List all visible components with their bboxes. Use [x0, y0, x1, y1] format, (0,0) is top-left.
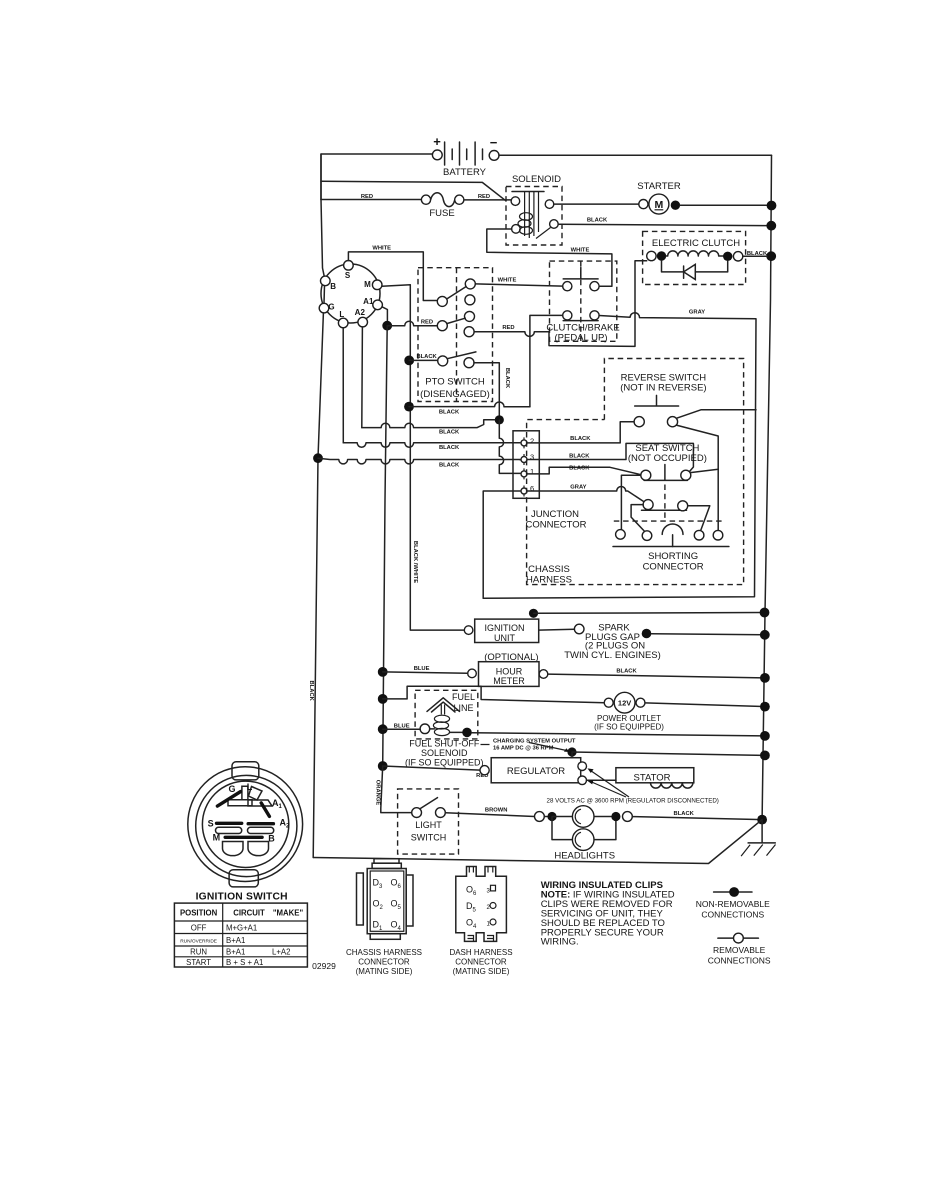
left rail down to ignition switch B [321, 154, 324, 276]
svg-text:CIRCUIT: CIRCUIT [233, 909, 265, 918]
svg-text:B: B [330, 282, 336, 291]
svg-text:PTO SWITCH: PTO SWITCH [425, 377, 485, 388]
svg-text:(MATING SIDE): (MATING SIDE) [356, 967, 413, 976]
wire BLACK L to junction pin2 [343, 443, 520, 447]
wire ORANGE a1 rail to light switch [381, 766, 412, 813]
svg-text:L: L [339, 310, 344, 319]
svg-text:M+G+A1: M+G+A1 [226, 924, 257, 933]
svg-text:CONNECTIONS: CONNECTIONS [708, 956, 771, 966]
ignition switch (mating view) [188, 762, 303, 887]
svg-text:CONNECTOR: CONNECTOR [643, 561, 704, 572]
svg-text:CONNECTIONS: CONNECTIONS [701, 910, 764, 920]
svg-text:BLUE: BLUE [414, 666, 430, 672]
wire WHITE pto to clutch/brake [475, 284, 562, 286]
svg-text:HEADLIGHTS: HEADLIGHTS [554, 851, 615, 862]
dashed harness line through shorting connector [614, 520, 725, 522]
wire RED fuse feed [321, 199, 422, 201]
svg-text:BLUE: BLUE [394, 723, 410, 729]
wire seat LR to shorting c4 [688, 506, 710, 531]
wire BLACK pto LR down to junction pin1 [474, 363, 499, 415]
electric clutch L1 [643, 231, 746, 284]
svg-text:DASH HARNESS: DASH HARNESS [449, 948, 512, 957]
stator [587, 768, 694, 788]
svg-text:FUSE: FUSE [429, 208, 454, 219]
wire B-G rail segment [313, 286, 324, 858]
legend removable connection [708, 933, 771, 965]
svg-text:RUN/OVERRIDE: RUN/OVERRIDE [180, 939, 217, 945]
svg-text:WIRING.: WIRING. [541, 937, 579, 948]
svg-text:BLACK /WHITE: BLACK /WHITE [412, 541, 418, 583]
svg-text:CHASSIS HARNESS: CHASSIS HARNESS [346, 948, 422, 957]
svg-text:2: 2 [530, 437, 534, 446]
svg-text:"MAKE": "MAKE" [273, 909, 304, 918]
svg-text:HOUR: HOUR [496, 666, 523, 676]
legend non-removable connection [696, 887, 770, 919]
node A1/regulator [378, 761, 388, 771]
right rail (battery negative bus) [762, 155, 771, 819]
wire BLACK headlights to rail [632, 817, 757, 820]
svg-text:WHITE: WHITE [498, 278, 517, 284]
svg-text:RED: RED [502, 325, 514, 331]
wire BLUE to fuel solenoid [383, 728, 420, 730]
node A1/hour-meter [378, 667, 388, 677]
wire seat UL to shorting c1 [621, 475, 640, 529]
wire RED pto to electric clutch [474, 261, 647, 347]
wire W2 BLACK a2 to pto-black node [362, 420, 495, 428]
svg-text:(PEDAL UP): (PEDAL UP) [555, 333, 608, 344]
wire to 12V power outlet [383, 686, 605, 702]
svg-text:BLACK: BLACK [439, 445, 460, 451]
svg-text:HARNESS: HARNESS [526, 575, 572, 586]
svg-text:−: − [490, 135, 498, 150]
svg-text:STARTER: STARTER [637, 181, 681, 192]
svg-text:WHITE: WHITE [372, 245, 391, 251]
svg-text:BLACK: BLACK [416, 354, 437, 360]
svg-text:METER: METER [493, 676, 525, 686]
svg-text:ELECTRIC CLUTCH: ELECTRIC CLUTCH [652, 238, 740, 249]
wire BLACK pin3 to seat switch UR [527, 443, 693, 471]
node A1/power-outlet [378, 694, 388, 704]
wire A1 to red node [382, 307, 387, 321]
svg-text:SHORTING: SHORTING [648, 551, 698, 562]
svg-text:(DISENGAGED): (DISENGAGED) [420, 389, 490, 400]
svg-text:REGULATOR: REGULATOR [507, 766, 565, 777]
svg-text:A1: A1 [363, 297, 374, 306]
clutch/brake switch S2 [546, 261, 619, 343]
wire clutch/brake LL down to ignition-unit bus [530, 315, 563, 406]
ignition switch table [174, 903, 307, 967]
svg-text:G: G [328, 303, 334, 312]
svg-text:(MATING SIDE): (MATING SIDE) [453, 967, 510, 976]
svg-text:M: M [213, 832, 221, 842]
node B rail / pin3 [313, 453, 323, 463]
node solenoid-black/rail [766, 221, 776, 231]
svg-text:GRAY: GRAY [689, 310, 705, 316]
wire battery+ diagonal to solenoid [321, 181, 506, 201]
wire starter to rail [680, 204, 772, 206]
svg-text:FUEL: FUEL [452, 692, 475, 702]
wire BLACK solenoid to rail [558, 224, 767, 225]
wire ignition bus to rail [534, 612, 765, 615]
svg-text:BROWN: BROWN [485, 807, 508, 813]
wire GRAY pin6 to seat switch LL [527, 487, 644, 502]
wire BROWN light switch to headlights [445, 813, 534, 817]
diode CR1 [662, 261, 728, 279]
svg-text:IGNITION: IGNITION [485, 623, 525, 633]
svg-text:(IF SO EQUIPPED): (IF SO EQUIPPED) [594, 723, 664, 732]
battery feed wire (left) [321, 154, 432, 200]
wire fuel solenoid to rail [472, 733, 765, 736]
svg-text:12V: 12V [618, 699, 631, 708]
svg-text:ORANGE: ORANGE [375, 780, 381, 806]
wire WHITE S to pto [348, 252, 437, 301]
wire A2 rail down [361, 327, 364, 428]
wire GRAY clutch/brake to seat harness return [483, 313, 756, 598]
wire M to ignition unit bus [382, 285, 464, 630]
svg-text:NON-REMOVABLE: NON-REMOVABLE [696, 899, 770, 909]
svg-text:BLACK: BLACK [308, 681, 314, 702]
junction connector J1 [513, 431, 539, 499]
wire BLACK B to junction pin3 [318, 458, 520, 464]
fuse F1 [421, 193, 464, 219]
svg-text:28 VOLTS AC @ 3600 RPM (REGULA: 28 VOLTS AC @ 3600 RPM (REGULATOR DISCON… [547, 798, 719, 805]
svg-text:STATOR: STATOR [634, 772, 671, 783]
svg-text:SWITCH: SWITCH [411, 833, 447, 843]
node starter/rail [767, 201, 777, 211]
svg-text:BLACK: BLACK [439, 462, 460, 468]
svg-text:GRAY: GRAY [570, 485, 586, 491]
node pto-black left [404, 356, 414, 366]
svg-text:BLACK: BLACK [439, 409, 460, 415]
wire BLACK pin1 to seat switch UL [527, 467, 641, 474]
node ignition unit / rail bus [529, 609, 538, 618]
svg-text:L: L [247, 782, 253, 792]
12V power outlet [594, 692, 664, 731]
svg-text:+: + [433, 134, 441, 149]
node A1/red [382, 321, 392, 331]
svg-text:CONNECTOR: CONNECTOR [358, 958, 410, 967]
svg-text:BLACK: BLACK [504, 368, 510, 389]
svg-text:WHITE: WHITE [571, 248, 590, 254]
svg-text:(NOT OCCUPIED): (NOT OCCUPIED) [628, 453, 707, 464]
shorting connector P2 [613, 524, 729, 572]
node regulator/rail wire [567, 747, 576, 756]
svg-text:BLACK: BLACK [439, 430, 460, 436]
svg-text:(NOT IN REVERSE): (NOT IN REVERSE) [620, 382, 706, 393]
svg-text:B+A1: B+A1 [226, 947, 245, 956]
wire BLACK node to pto LL [409, 359, 438, 361]
svg-text:BLACK: BLACK [570, 436, 591, 442]
chassis harness connector (mating side) [346, 859, 422, 976]
node rail/ground [757, 815, 767, 825]
node pto-black right [495, 415, 504, 424]
svg-text:RED: RED [361, 194, 373, 200]
svg-text:SOLENOID: SOLENOID [512, 174, 561, 185]
node W1 black bus [404, 402, 414, 412]
svg-text:REMOVABLE: REMOVABLE [713, 945, 766, 955]
seat switch S5 [628, 443, 718, 521]
svg-text:RED: RED [478, 194, 490, 200]
svg-text:UNIT: UNIT [494, 633, 515, 643]
wire battery to right rail [499, 154, 772, 156]
spark plugs gap [539, 623, 770, 661]
ignition switch SW1 (schematic) [319, 261, 382, 328]
wire 12V outlet to rail [645, 703, 765, 707]
svg-text:LINE: LINE [453, 703, 473, 713]
svg-text:CONNECTOR: CONNECTOR [525, 520, 586, 531]
frame bottom [313, 820, 762, 864]
wire RED a1-node to pto [387, 321, 437, 325]
svg-text:BLACK: BLACK [569, 454, 590, 460]
svg-text:02929: 02929 [312, 961, 336, 971]
svg-text:BATTERY: BATTERY [443, 167, 487, 178]
svg-text:(IF SO EQUIPPED): (IF SO EQUIPPED) [405, 757, 484, 767]
svg-text:B: B [268, 833, 275, 843]
hour meter (optional) [468, 652, 548, 687]
fuel shut-off solenoid [415, 690, 478, 739]
solenoid K1 [506, 174, 562, 245]
svg-text:L+A2: L+A2 [272, 947, 290, 956]
svg-text:B + S + A1: B + S + A1 [226, 958, 263, 967]
svg-text:IGNITION SWITCH: IGNITION SWITCH [196, 892, 288, 903]
wire RED fuse to solenoid [464, 199, 511, 201]
svg-text:BLACK: BLACK [674, 811, 695, 817]
dash harness connector (mating side) [449, 867, 512, 977]
svg-text:START: START [186, 958, 211, 967]
svg-text:OFF: OFF [191, 924, 207, 933]
wire BLACK pin2 to reverse switch [527, 422, 634, 443]
wire BLUE to hour meter [383, 672, 468, 673]
regulator [480, 758, 587, 785]
wire BLACK hour meter to rail [548, 674, 765, 678]
light switch S6 [398, 789, 459, 854]
svg-text:RUN: RUN [190, 947, 207, 956]
svg-text:FUEL SHUT-OFF: FUEL SHUT-OFF [409, 739, 480, 749]
wire RED to regulator [383, 766, 480, 770]
svg-text:CHASSIS: CHASSIS [528, 564, 570, 575]
wire seat LL to shorting c2 [631, 505, 645, 532]
wiring insulated clips note [541, 880, 675, 948]
svg-text:A2: A2 [355, 308, 366, 317]
wire solenoid to starter [554, 203, 639, 205]
svg-text:CONNECTOR: CONNECTOR [455, 958, 507, 967]
wire WHITE solenoid to clutch/brake [487, 229, 612, 286]
wire reverse switch to gray bus [676, 410, 756, 419]
svg-text:G: G [228, 784, 235, 794]
starter M1 [637, 181, 681, 214]
reverse switch S4 [620, 372, 718, 530]
svg-text:JUNCTION: JUNCTION [531, 509, 579, 520]
chassis harness / reverse switch dashed boundary [527, 359, 744, 585]
battery BT1 [432, 134, 499, 178]
svg-text:S: S [208, 818, 214, 828]
node clutch/rail [766, 251, 776, 261]
svg-text:POWER OUTLET: POWER OUTLET [597, 714, 661, 723]
wire GRAY pin6 return (left) [483, 491, 521, 598]
svg-text:LIGHT: LIGHT [415, 820, 442, 830]
PTO switch S3 [418, 268, 493, 402]
ignition unit U1 [464, 619, 538, 643]
headlights [552, 806, 632, 862]
svg-text:M: M [364, 280, 371, 289]
node A1/fuel [378, 724, 388, 734]
wire L rail down [342, 328, 344, 443]
svg-text:BLACK: BLACK [616, 669, 637, 675]
svg-text:RED: RED [421, 320, 433, 326]
svg-text:B+A1: B+A1 [226, 936, 245, 945]
ground symbol [748, 820, 775, 843]
wire A1 rail down [383, 326, 388, 766]
svg-text:S: S [345, 271, 351, 280]
svg-text:BLACK: BLACK [587, 218, 608, 224]
svg-text:POSITION: POSITION [180, 909, 218, 918]
svg-text:TWIN CYL. ENGINES): TWIN CYL. ENGINES) [564, 650, 661, 661]
svg-text:BLACK: BLACK [569, 465, 590, 471]
wire W1 BLACK hump [409, 402, 530, 407]
